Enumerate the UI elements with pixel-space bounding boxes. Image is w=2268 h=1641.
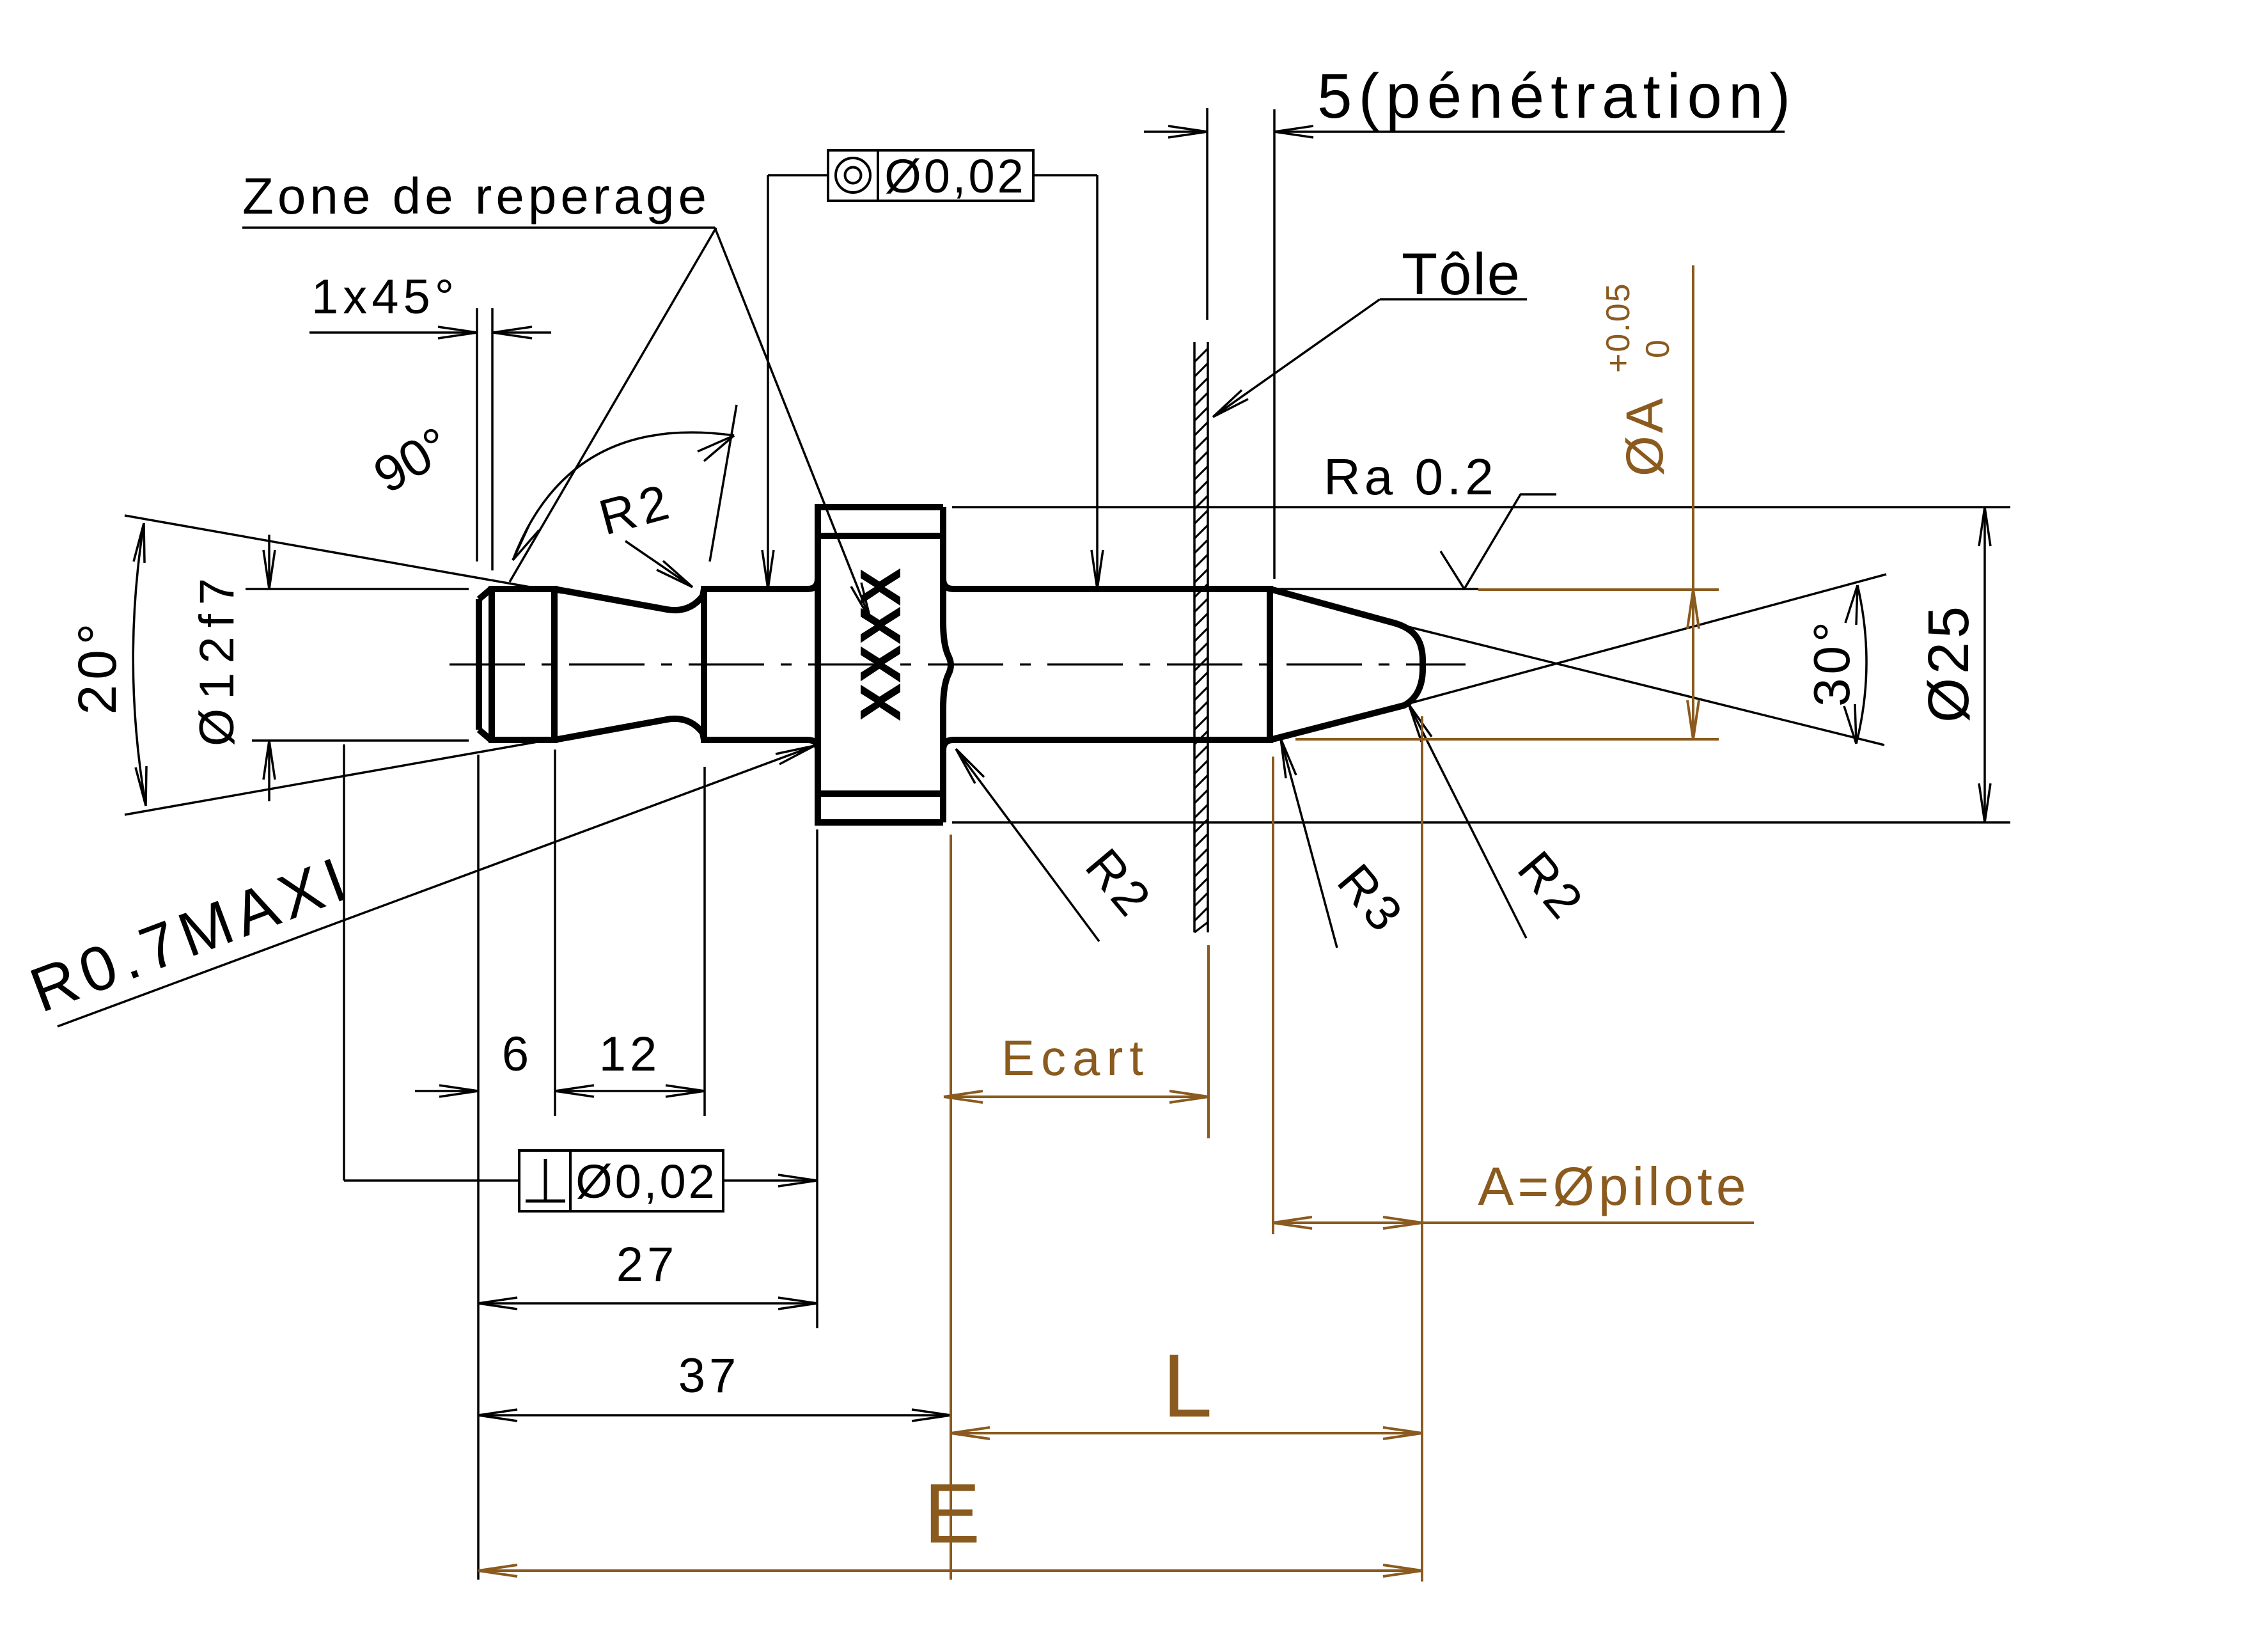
svg-text:6: 6 xyxy=(502,1027,529,1081)
svg-text:Tôle: Tôle xyxy=(1402,242,1521,307)
svg-text:12: 12 xyxy=(599,1027,661,1081)
svg-text:Ecart: Ecart xyxy=(1001,1030,1150,1086)
svg-text:XXXX: XXXX xyxy=(849,568,913,721)
svg-text:20°: 20° xyxy=(67,618,127,714)
svg-text:L: L xyxy=(1162,1335,1212,1436)
svg-text:Ø25: Ø25 xyxy=(1917,602,1981,723)
svg-text:Ø12f7: Ø12f7 xyxy=(190,569,244,746)
svg-text:Ø0,02: Ø0,02 xyxy=(884,150,1026,203)
svg-text:E: E xyxy=(924,1466,980,1560)
svg-text:1x45°: 1x45° xyxy=(311,270,458,324)
svg-text:5(pénétration): 5(pénétration) xyxy=(1317,61,1797,131)
svg-text:+0.05: +0.05 xyxy=(1600,282,1637,373)
svg-text:30°: 30° xyxy=(1803,618,1860,707)
svg-text:A=Øpilote: A=Øpilote xyxy=(1478,1156,1749,1216)
svg-text:27: 27 xyxy=(616,1237,678,1292)
svg-text:ØA: ØA xyxy=(1616,396,1674,476)
svg-text:Ra 0.2: Ra 0.2 xyxy=(1324,448,1498,505)
svg-text:Zone de reperage: Zone de reperage xyxy=(242,168,710,224)
svg-text:37: 37 xyxy=(678,1349,740,1403)
svg-text:0: 0 xyxy=(1639,340,1677,358)
svg-text:Ø0,02: Ø0,02 xyxy=(575,1155,717,1208)
